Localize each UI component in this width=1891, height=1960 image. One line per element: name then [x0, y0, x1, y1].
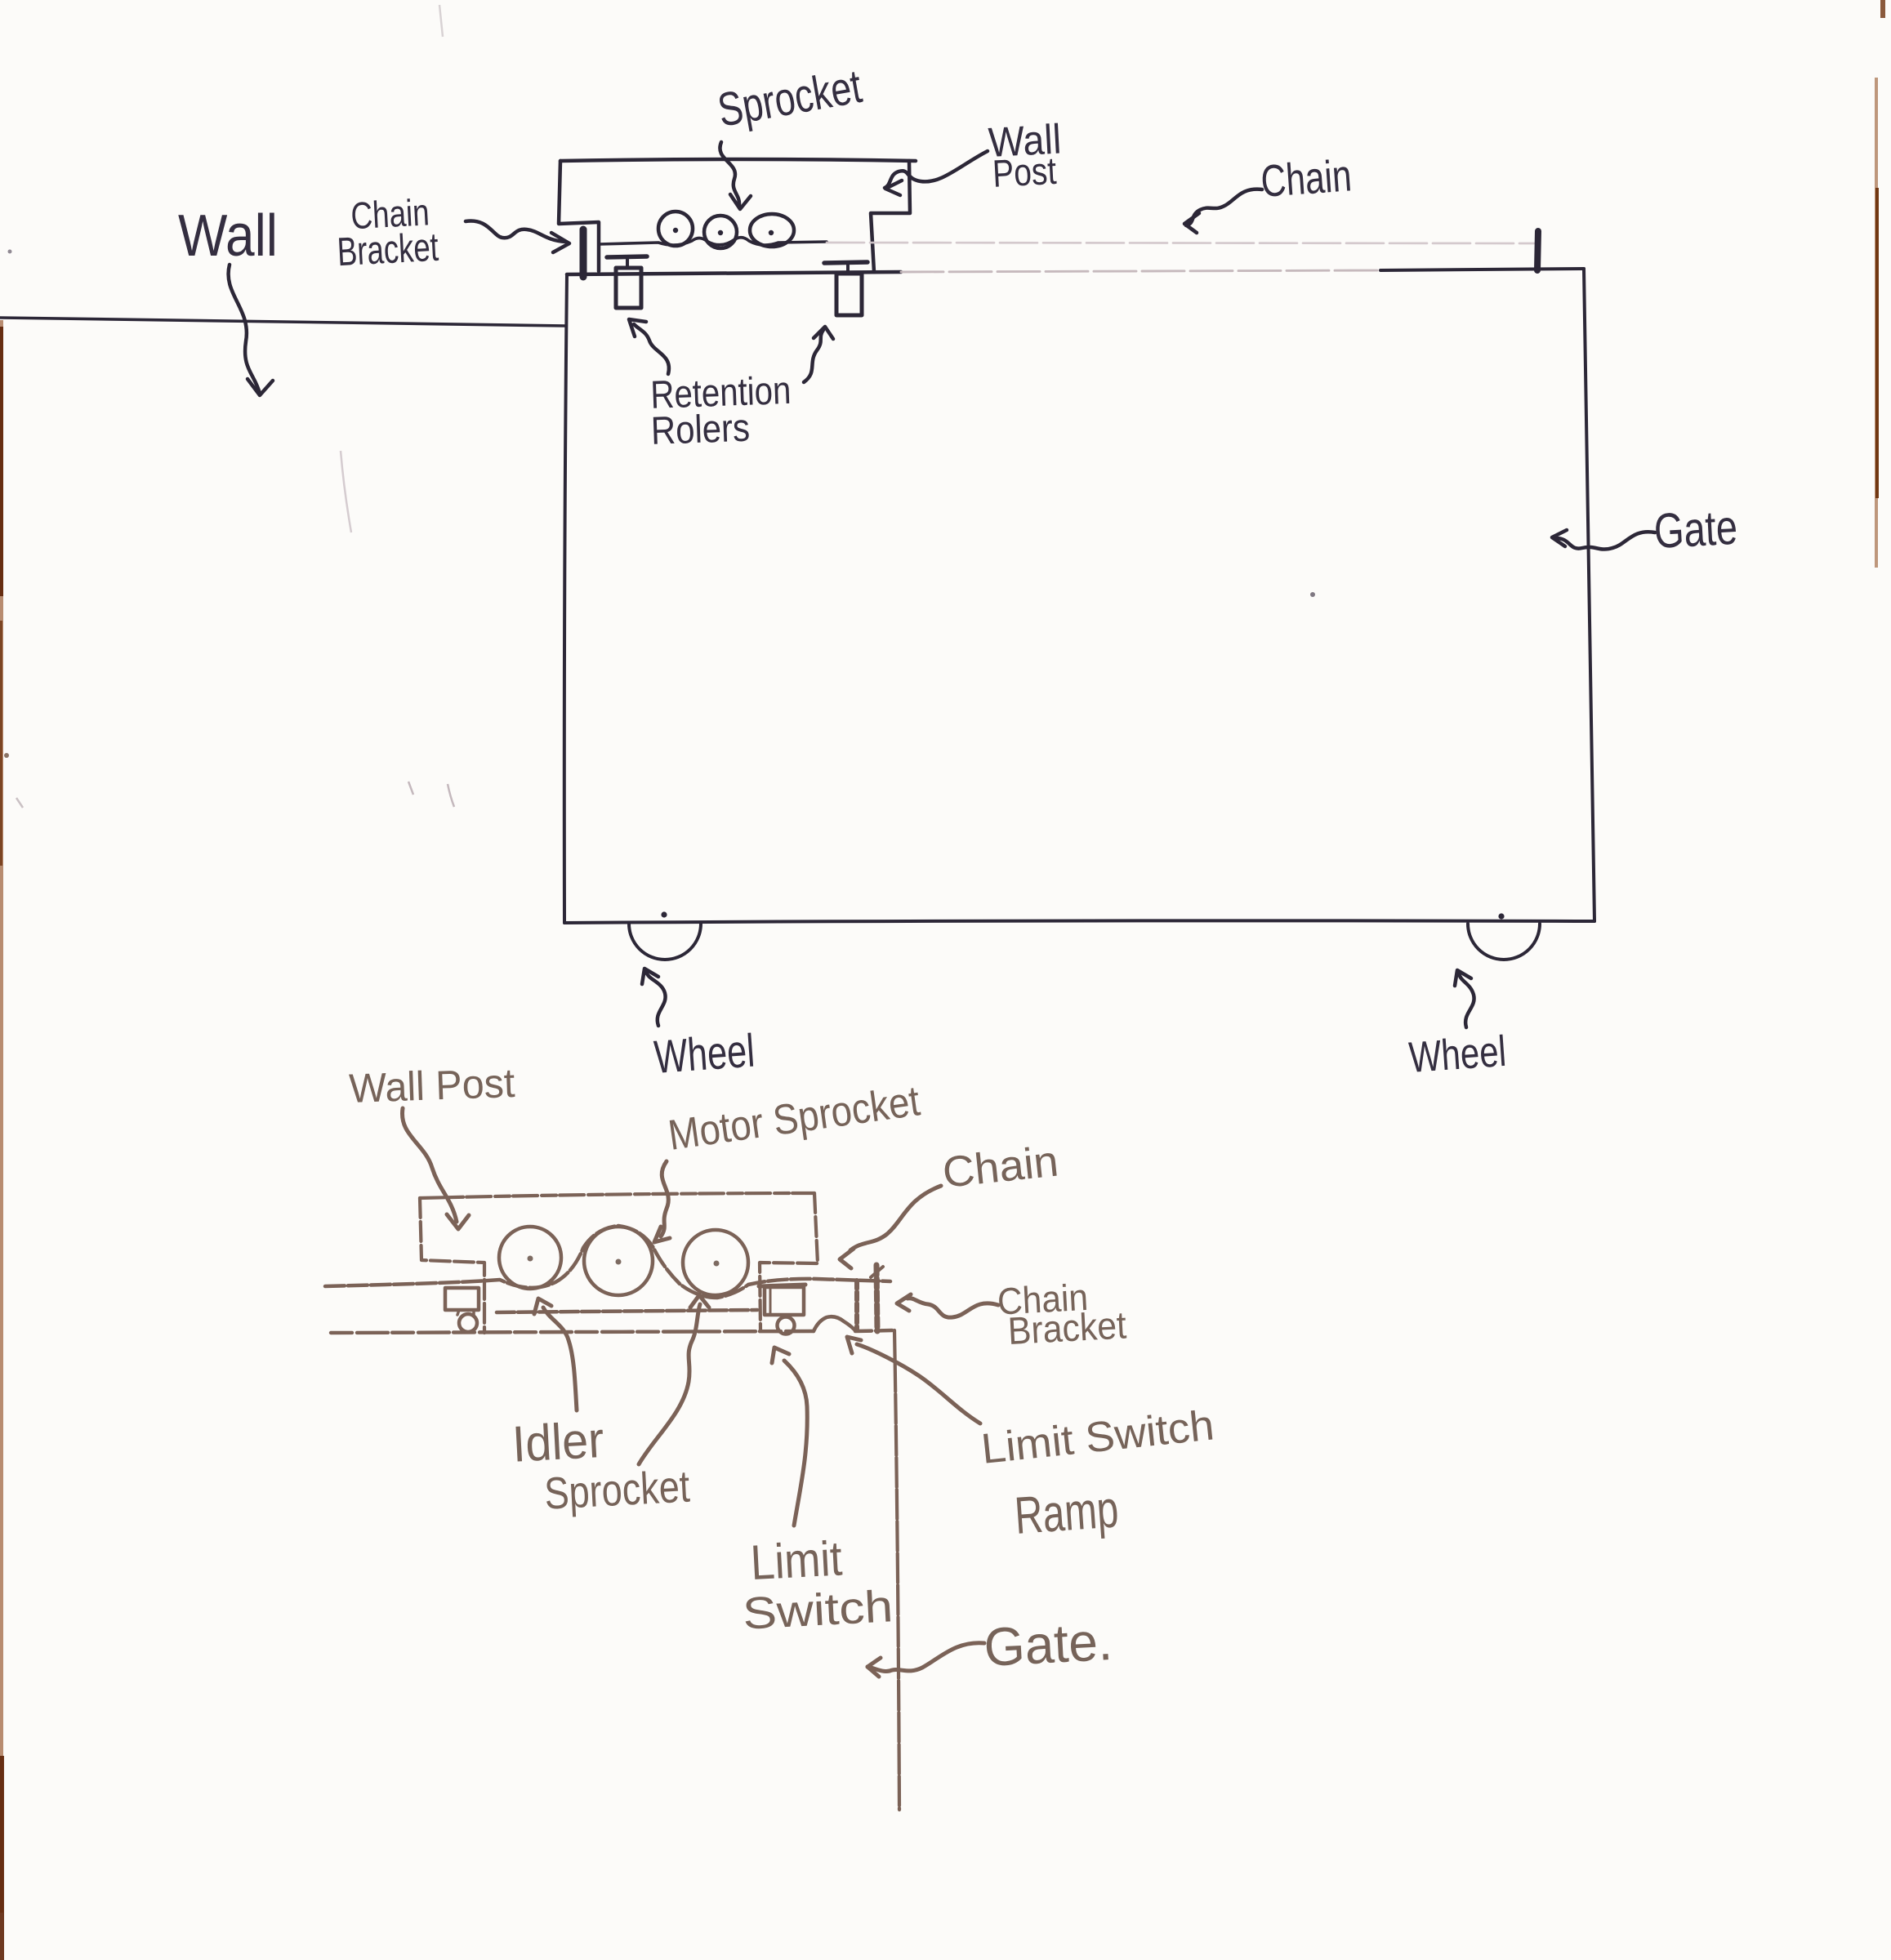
wall line: [0, 318, 566, 326]
retention roller (detail, right) with mount bar: [759, 1285, 805, 1286]
arrow: limit switch ramp label: [857, 1344, 980, 1423]
chain end bracket tick on gate: [1537, 231, 1538, 270]
arrow: gate label (detail): [890, 1643, 984, 1671]
stray pencil marks: [439, 5, 443, 37]
svg-text:Limit: Limit: [749, 1530, 844, 1590]
arrow: idler sprocket label (to left idler): [543, 1307, 577, 1410]
gate (top view rectangle) : top edge: [567, 272, 901, 274]
label: Idler Sprocket: [511, 1408, 690, 1521]
chain bracket (detail) bar 1: [854, 1281, 859, 1330]
svg-text:Post: Post: [992, 149, 1058, 195]
gate left edge: [564, 274, 567, 923]
sprocket 3: [750, 214, 794, 247]
svg-text:Wheel: Wheel: [1407, 1027, 1508, 1082]
arrow: idler sprocket label (to right idler): [639, 1304, 700, 1464]
svg-text:Rolers: Rolers: [650, 407, 751, 453]
paper edge left (brown scan edge): [0, 320, 3, 1913]
label: Limit Switch (lower): [738, 1528, 894, 1638]
motor sprocket (detail, middle): [584, 1227, 653, 1295]
arrow: wall post label (detail): [402, 1108, 457, 1222]
rail line under rollers (detail): [497, 1310, 757, 1312]
arrow: chain bracket label (detail): [908, 1298, 998, 1317]
paper edge right (brown scan line): [1875, 78, 1878, 568]
retention roller (detail, left): [445, 1288, 479, 1310]
retention roller left: [607, 256, 647, 257]
svg-text:Chain: Chain: [1260, 149, 1354, 207]
chain bracket (top view, thick bar): [580, 229, 587, 277]
label: Retention Rolers: [649, 369, 792, 453]
svg-text:Bracket: Bracket: [1007, 1303, 1128, 1352]
svg-text:Wheel: Wheel: [653, 1025, 756, 1084]
wall post housing (top view): [560, 159, 916, 161]
svg-text:Gate: Gate: [1652, 500, 1738, 559]
arrow: chain bracket label: [466, 221, 565, 242]
retention roller right: [824, 262, 867, 263]
label: Chain Bracket (detail): [997, 1273, 1127, 1352]
arrow: limit switch label: [784, 1361, 807, 1526]
sprocket 1: [658, 212, 693, 246]
svg-text:Wall Post: Wall Post: [348, 1060, 515, 1111]
arrow: gate label: [1556, 532, 1655, 549]
svg-text:Wall: Wall: [178, 203, 278, 269]
gate top edge (detail) with limit switch ramp bump: [331, 1331, 814, 1333]
idler sprocket left (detail): [499, 1227, 561, 1289]
gate bottom edge: [564, 920, 1594, 923]
wheel right: [1468, 924, 1540, 960]
chain (detail): from wall, under idler 1, over motor sprocket, under idler 2, to bracket: [325, 1226, 890, 1298]
svg-text:Idler: Idler: [511, 1412, 604, 1473]
arrow: wall label: [229, 265, 260, 394]
label: Wall Post: [988, 115, 1064, 195]
label: Chain Bracket: [334, 190, 439, 274]
gate leading edge (detail, vertical): [894, 1330, 899, 1810]
limit switch ramp: [814, 1316, 855, 1331]
svg-text:Bracket: Bracket: [337, 225, 440, 274]
arrow: sprocket label: [720, 142, 739, 205]
limit switch (detail, roller wheel): [778, 1317, 795, 1334]
arrow: retention rollers left: [634, 324, 669, 374]
chain through sprockets: [599, 238, 827, 245]
arrow: motor sprocket label: [661, 1161, 668, 1236]
arrow: chain label: [1186, 189, 1262, 225]
arrow: retention rollers right: [804, 330, 823, 382]
svg-text:Sprocket: Sprocket: [543, 1461, 691, 1519]
arrow: chain label (detail): [850, 1186, 941, 1250]
gate right edge: [1584, 269, 1594, 921]
sprocket 2: [704, 216, 737, 248]
arrow: wall post label: [885, 151, 988, 188]
arrow: wheel left: [646, 972, 666, 1026]
chain bracket (detail) bar 2: [876, 1265, 877, 1331]
svg-text:Switch: Switch: [742, 1580, 894, 1639]
arrow: wheel right: [1459, 973, 1474, 1027]
chain (faint pencil continuation to gate far end): [827, 243, 1534, 243]
wall post housing (detail view): [420, 1193, 814, 1198]
svg-text:Gate.: Gate.: [983, 1610, 1114, 1677]
idler sprocket right (detail): [683, 1230, 748, 1295]
wheel left: [629, 924, 701, 960]
svg-text:Ramp: Ramp: [1013, 1479, 1121, 1545]
